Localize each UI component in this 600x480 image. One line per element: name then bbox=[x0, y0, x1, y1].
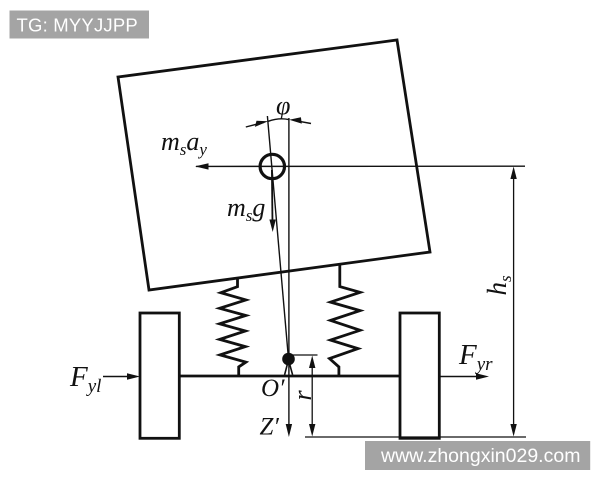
ground reference line bbox=[305, 436, 526, 438]
left spring bbox=[220, 279, 246, 376]
right spring bbox=[330, 264, 361, 376]
phi dimension left arrowhead bbox=[255, 121, 268, 127]
svg-text:φ: φ bbox=[276, 91, 290, 120]
arrowhead of m_s a_y force (pointing left) bbox=[195, 163, 209, 169]
roll center dot O' bbox=[282, 353, 295, 366]
phi dimension arc bbox=[268, 119, 289, 121]
h_s dimension top arrowhead bbox=[510, 167, 516, 180]
svg-text:TG: MYYJJPP: TG: MYYJJPP bbox=[17, 15, 138, 36]
F_yl force arrow bbox=[103, 376, 128, 378]
svg-text:Z′: Z′ bbox=[260, 414, 280, 441]
tilted body axis line (through mass center to O') bbox=[267, 116, 288, 359]
m_s g gravity arrow bbox=[271, 170, 274, 224]
vertical reference line (Z' axis through O') bbox=[288, 118, 290, 431]
svg-text:www.zhongxin029.com: www.zhongxin029.com bbox=[380, 445, 580, 467]
svg-text:r: r bbox=[288, 390, 317, 401]
watermark banner top-left bbox=[10, 11, 150, 39]
horizontal line through mass center (lateral force line) bbox=[196, 165, 525, 167]
Z' axis arrowhead (pointing down) bbox=[286, 424, 292, 437]
axle beam bbox=[178, 375, 401, 378]
phi dimension right leader bbox=[295, 121, 311, 124]
r dimension bottom arrowhead bbox=[309, 424, 315, 437]
phi dimension right arrowhead bbox=[289, 117, 302, 123]
F_yr force arrow bbox=[440, 376, 478, 378]
svg-text:O′: O′ bbox=[261, 375, 285, 402]
h_s dimension line bbox=[513, 172, 515, 431]
r dimension line bbox=[311, 361, 313, 431]
mass center circle bbox=[260, 154, 284, 178]
svg-text:Fyr: Fyr bbox=[458, 339, 493, 375]
pivot leg right bbox=[289, 361, 293, 375]
watermark banner bottom-right bbox=[365, 441, 590, 470]
right wheel bbox=[400, 313, 439, 438]
svg-text:Fyl: Fyl bbox=[69, 361, 101, 397]
svg-text:hs: hs bbox=[482, 275, 515, 296]
pivot leg left bbox=[285, 361, 289, 375]
phi dimension left leader bbox=[246, 122, 264, 127]
r dimension tick line bbox=[292, 354, 318, 356]
left wheel bbox=[140, 313, 179, 438]
r dimension top arrowhead bbox=[309, 356, 315, 369]
h_s dimension bottom arrowhead bbox=[510, 424, 516, 437]
sprung mass body (tilted rectangle) bbox=[118, 40, 430, 290]
